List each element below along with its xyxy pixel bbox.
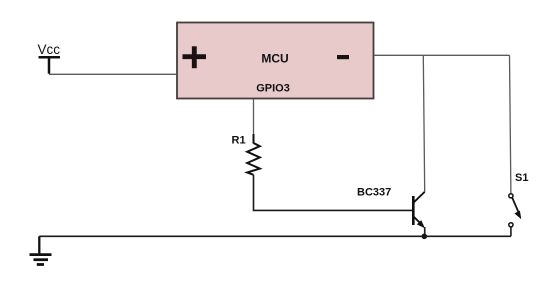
svg-text:S1: S1	[515, 172, 528, 184]
svg-text:R1: R1	[232, 135, 246, 147]
svg-text:MCU: MCU	[261, 52, 288, 66]
svg-text:GPIO3: GPIO3	[256, 83, 290, 95]
svg-text:BC337: BC337	[357, 187, 391, 199]
svg-text:Vcc: Vcc	[37, 42, 60, 57]
